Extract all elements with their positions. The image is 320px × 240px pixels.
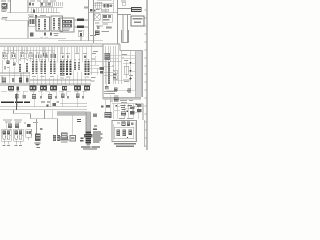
- corner text: [127, 89, 131, 94]
- marks under blocks: [30, 33, 52, 37]
- small box with wire inside ECU: [123, 62, 130, 82]
- ECU extra labels: [92, 51, 98, 54]
- main bus band across page: [0, 44, 103, 47]
- pin ticks row y54-58: [36, 55, 48, 59]
- relay K4: [41, 61, 47, 74]
- switch symbols row y93-100: [15, 94, 84, 100]
- resistor bar R2: [26, 63, 28, 72]
- sub-components row y77-83: [2, 78, 28, 83]
- relay K8: [74, 62, 76, 70]
- ECU component A: [105, 53, 111, 60]
- ECU inner wires extra: [90, 56, 135, 80]
- pointer arrows near band: [77, 119, 97, 142]
- junction text: [84, 7, 88, 9]
- junction box J1: [70, 115, 76, 141]
- relay K3: [32, 61, 38, 74]
- harness connector (dark striated): [84, 131, 92, 146]
- connector pins row (small boxes y52-58): [2, 54, 33, 59]
- band labels: [40, 37, 48, 40]
- lower-right wiring cluster above box: [112, 104, 143, 120]
- dark vertical feed: [16, 94, 18, 111]
- lamp cluster L2: [13, 63, 16, 66]
- wires to battery: [118, 9, 131, 43]
- relay box B2 (outlined, top far right): [131, 16, 144, 26]
- lamp cluster L1: [7, 61, 10, 65]
- resistor bar R1: [19, 64, 21, 72]
- long horizontal wires lower: [0, 104, 87, 110]
- ECU bottom cluster: [105, 86, 118, 91]
- connector blob row y85-91: [8, 86, 90, 91]
- side cluster left of ECU: [100, 67, 105, 74]
- horn H1 (trapezoid): [60, 133, 70, 143]
- legend text block right of connector: [93, 132, 103, 143]
- arrow mark: [27, 124, 30, 127]
- small top marks: [106, 27, 112, 28]
- bar pin tops: [19, 60, 90, 61]
- motor M1 (bottom middle-left): [35, 128, 43, 141]
- wire drops texture: [5, 47, 87, 85]
- sensor pair S1: [53, 135, 60, 141]
- relay K10: [85, 61, 90, 75]
- caption under connector: [81, 146, 91, 147]
- text under ECU: [120, 100, 133, 103]
- caption marks middle: [41, 102, 59, 107]
- relay K9: [78, 62, 80, 70]
- label text row under blobs: [1, 90, 87, 93]
- ECU internal wires: [90, 44, 131, 90]
- side marker cluster: [26, 130, 32, 141]
- border ruler line: [146, 0, 148, 150]
- wire to junction (top right of middle): [74, 0, 89, 41]
- connector box X2: [29, 17, 36, 26]
- relay block K2: [51, 16, 63, 31]
- mid-left small cluster near band: [101, 105, 112, 118]
- headlamp assembly left: [2, 129, 12, 146]
- ignition switch cluster (top right): [89, 0, 118, 44]
- ECU component B (tall bar): [108, 62, 110, 84]
- harness band (thick gray): [57, 112, 91, 132]
- relay K7: [66, 61, 72, 75]
- bus drop wires: [3, 47, 77, 54]
- wires among relay row: [0, 73, 91, 85]
- relay K6: [60, 61, 65, 76]
- connector strip X1 (top middle): [28, 0, 63, 18]
- starter marks: [90, 26, 109, 36]
- dark caption strip: [1, 101, 30, 103]
- wire label W2: [77, 26, 84, 28]
- relay block K1: [36, 17, 50, 31]
- ground G1: [35, 143, 41, 146]
- control unit U1: [60, 18, 74, 32]
- label-to-lamp stubs: [6, 123, 22, 132]
- text rows bottom left: [3, 120, 38, 123]
- relay K5: [50, 61, 56, 74]
- fuse box F1 (top-left cluster): [1, 1, 11, 20]
- inter-row verticals: [17, 91, 83, 119]
- wire from F1: [5, 0, 30, 21]
- connector X3 under U1 wires: [78, 30, 83, 36]
- ECU inner box: [106, 55, 136, 90]
- junction dots: [122, 57, 124, 59]
- right mid column text: [107, 91, 119, 102]
- ruler tick marks: [145, 10, 147, 146]
- left lower wiring box: [14, 110, 58, 135]
- headlamp assembly right: [14, 129, 24, 146]
- wire bus under blocks: [0, 21, 103, 41]
- bottom right assembly box: [112, 118, 137, 142]
- labels under relay bars: [32, 76, 89, 78]
- big ECU box (right middle): [103, 44, 143, 99]
- relay row tall hatched components y60-80: [2, 58, 13, 73]
- battery label (dark box top far right): [121, 1, 142, 13]
- wire label W1: [77, 19, 84, 21]
- short vertical right: [144, 120, 146, 147]
- vertical label text: [31, 129, 32, 137]
- small switch boxes bottom left: [8, 124, 12, 129]
- relay boxes in ECU: [113, 70, 117, 80]
- marks inside ECU: [113, 74, 116, 79]
- caption under assembly: [114, 143, 136, 147]
